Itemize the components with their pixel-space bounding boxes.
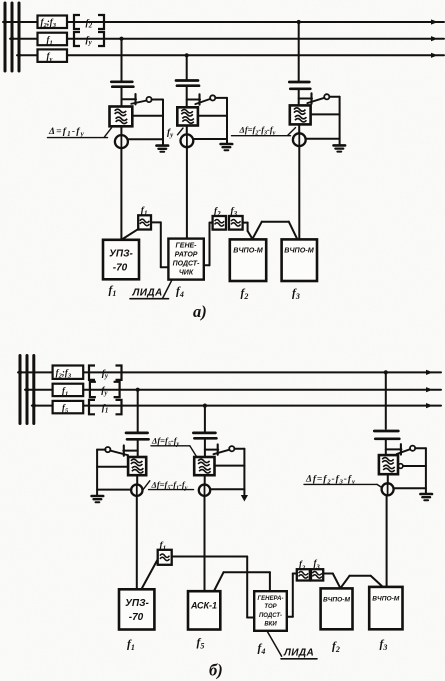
label f2 under VChPO-1 (b) [332,641,340,655]
bus bar phase B (diagram a) [11,3,14,71]
bus bar phase A (diagram a) [4,3,7,71]
block VChPO-M 2 (diagram a) [282,239,317,281]
filter box f2;f3 (diagram b line-1) [53,366,84,380]
wire to UPZ-70 channel-1a [120,148,122,240]
svg-text:ВКИ: ВКИ [264,621,277,627]
meter circle channel-1b [131,485,142,496]
block VChPO-M 1 (diagram b) [321,588,353,629]
junction bus C/line-3 [17,53,21,57]
block VChPO-M 2 (diagram b) [369,587,402,629]
trap filter [fy] (diagram b line-1) [89,366,122,381]
wire box to meter channel-3b [387,474,389,483]
filter box f5 (diagram b line-3) [53,401,84,415]
junction line-2 tap channel-1a [119,37,123,41]
label f2 above small converter (b) [299,559,306,572]
wire f1-conv to generator (b) [172,557,254,618]
label f1 above small converter (b) [160,541,167,553]
label f2 above small converter (a) [214,206,221,218]
bus bar phase A (diagram b) [19,356,22,424]
meter circle channel-1a [115,135,128,148]
wire meter output channel-3a [306,138,340,140]
wire box to meter channel-1a [120,126,122,135]
wire drop channel-2b [204,406,206,432]
ground channel-1a [157,146,169,152]
bus bar phase B (diagram b) [26,356,29,424]
svg-text:а): а) [193,302,207,321]
wire to VChPO-2 channel-3b [386,495,388,587]
wire generator to f2-conv (a) [204,223,213,266]
caption a) [193,302,207,321]
coupling capacitor channel-1a [111,82,133,87]
label f4 (diagram a) [176,286,184,300]
wire drop channel-2a [186,55,188,79]
junction line-1 tap channel-3a [297,20,301,24]
wire UPZ to f1-converter diag (a) [122,229,139,240]
coupling capacitor channel-2b [193,433,216,438]
wire f3-conv to VChPO-1 (b) [323,574,340,589]
filter box f1 (diagram b line-2) [53,384,84,398]
junction bus A/line-1 [3,20,7,24]
junction line-3 tap channel-2a [185,53,189,57]
small converter f3 (diagram b) [311,569,323,580]
label delta-f=f2-f3-fy (channel-3a) [232,125,296,137]
trap filter [fy] (diagram b line-2) [90,382,120,397]
wire box to meter channel-2b [204,475,206,485]
svg-text:ЛИДА: ЛИДА [132,288,163,299]
svg-text:АСК-1: АСК-1 [190,601,217,611]
wire rail channel-2b [243,449,245,495]
junction line-3 tap channel-2b [203,404,207,408]
wire meter output channel-1a [128,138,163,140]
wire box output channel-3a [311,113,340,115]
label f5 under ASK-1 (b) [197,637,205,651]
label f1 under UPZ-70 (b) [127,639,135,653]
wire line-2 f1 (diagram b) [25,387,441,392]
small converter f1 (diagram a) [138,215,151,229]
svg-text:ВЧПО-М: ВЧПО-М [372,595,399,602]
wire box to meter channel-1b [136,475,138,485]
filter box f1 (diagram a line-2) [38,33,68,47]
wire cap to box channel-2b [204,438,206,457]
wire f1-conv to generator (a) [151,222,168,267]
label f1 above small converter (a) [141,206,148,218]
wire cap to box channel-3b [385,439,387,455]
wire cap to box channel-1b [137,439,139,457]
filter box f2;f3 (diagram a line-1) [38,16,68,30]
disconnect switch channel-2a [187,94,227,104]
label delta-f=f5-fy (channel-2b) [151,436,196,457]
label f3 under VChPO-2 (a) [292,288,300,302]
frequency converter box channel-2a [177,107,198,125]
svg-text:ВЧПО-М: ВЧПО-М [233,245,263,254]
wire drop channel-3b [385,372,387,429]
frequency converter box channel-1a [110,107,133,127]
wire drop channel-1b [137,390,139,432]
wire meter output channel-3b [394,487,426,489]
coupling capacitor channel-3a [289,82,310,89]
wire cap to box channel-1a [121,87,123,107]
trap filter [f1] (diagram b line-3) [89,400,122,415]
svg-text:ВЧПО-М: ВЧПО-М [323,596,350,603]
wire bridge VChPO-1 to VChPO-2 (a) [253,222,297,239]
trap filter [f2] (diagram a line-1) [74,15,104,30]
svg-text:ГЕНЕ-: ГЕНЕ- [175,243,197,250]
wire drop channel-3a [298,22,300,81]
disconnect switch channel-1a [122,94,164,104]
wire meter output channel-1b [97,489,131,491]
wire cap to box channel-2a [186,86,188,108]
svg-text:-70: -70 [113,263,128,274]
ground channel-3b [420,494,432,500]
coupling capacitor channel-3b [374,431,399,439]
wire to VChPO-2 channel-3a [298,146,300,239]
label f2 under VChPO-1 (a) [241,288,249,302]
wire meter output channel-2a [193,138,227,140]
label f3 above small converter (a) [231,206,238,218]
wire rail channel-3a [339,97,341,145]
label f3 above small converter (b) [314,558,321,571]
ground channel-1b [92,496,104,502]
small converter f1 (diagram b) [158,550,172,565]
ground channel-2a [221,144,233,150]
wire UPZ to f1-converter diag (b) [142,560,158,590]
meter circle channel-3b [382,483,394,495]
frequency converter box channel-2b [194,457,214,475]
disconnect switch channel-3a [299,93,340,103]
frequency converter box channel-1b [128,457,146,475]
wire line-1 f2;f3 (diagram a) [3,19,444,24]
wire box output channel-1b [97,466,128,468]
wire ASK-1 to generator top (b) [214,572,270,591]
bus bar phase C (diagram a) [18,3,21,71]
trap filter [fy] (diagram a line-2) [74,32,104,47]
wire to generator channel-2a [186,147,188,239]
label f3 under VChPO-2 (b) [380,639,388,653]
label delta-f=f2-f3-fy (channel-3b) [304,475,382,488]
wire meter output channel-2b [210,488,244,490]
junction bus B/line-2 [10,37,14,41]
meter circle channel-2b [199,485,210,496]
svg-text:ВЧПО-М: ВЧПО-М [284,245,314,254]
wire to UPZ-70 channel-1b [136,496,138,589]
disconnect switch channel-2b [205,444,245,454]
wire box to meter channel-2a [186,126,188,135]
svg-text:-70: -70 [129,612,144,623]
wire line-3 fy (diagram a) [17,53,444,58]
label f1 under UPZ-70 (a) [109,285,117,299]
label f4 (diagram b) [258,643,266,657]
caption b) [209,661,223,680]
meter circle channel-2a [181,134,194,147]
svg-text:ТОР: ТОР [264,604,277,610]
wire line-3 f5 (diagram b) [32,403,441,408]
disconnect switch channel-3b [386,444,426,454]
wire box output channel-2a [198,115,227,117]
small converter f2 (diagram b) [297,569,310,580]
label LIDA (diagram a) [130,280,172,299]
block ASK-1 (diagram b) [188,591,220,629]
frequency converter box channel-3b [379,455,398,474]
svg-text:УПЗ-: УПЗ- [109,249,133,260]
wire box output channel-3b [403,465,426,467]
frequency converter box channel-3a [290,105,311,124]
junction bus C/line-3 (b) [32,404,36,408]
svg-text:ГЕНЕРА-: ГЕНЕРА- [258,596,284,602]
block generator podstavki (diagram a) [168,239,203,280]
label LIDA (diagram b) [281,648,317,659]
wire leader generator to LIDA (b) [267,632,281,657]
ground channel-3a [334,145,346,151]
junction line-1 tap channel-3b [384,370,388,374]
wire box output channel-2b [215,465,245,467]
junction bus B/line-2 (b) [25,388,29,392]
wire box to meter channel-3a [298,124,300,133]
svg-text:ПОДСТ-: ПОДСТ- [173,261,201,268]
svg-text:б): б) [209,661,223,680]
label fy (channel-2a) [167,128,183,139]
ground arrow channel-2b [241,495,248,502]
wire generator to f2-conv (b) [287,574,297,617]
wire to ASK-1 channel-2b [204,496,206,591]
block UPZ-70 (diagram b) [119,589,154,629]
svg-text:ПОДСТ-: ПОДСТ- [259,613,282,619]
junction bus A/line-1 (b) [18,370,22,374]
svg-text:РАТОР: РАТОР [175,252,198,259]
bus bar phase C (diagram b) [32,356,35,424]
disconnect switch channel-1b [97,445,138,455]
svg-text:Δ=f1-fу: Δ=f1-fу [48,127,85,138]
junction line-2 tap channel-1b [136,388,140,392]
wire rail channel-1a [162,100,164,146]
coupling capacitor channel-1b [126,433,149,439]
filter box fy (diagram a line-3) [38,49,68,63]
wire rail channel-1b [96,450,98,496]
wire line-2 f1 (diagram a) [10,36,444,41]
terminal circle box output channel-3b [398,464,403,469]
wire rail channel-2a [226,98,228,144]
wire drop channel-1a [121,39,123,81]
wire cap to box channel-3a [298,89,300,106]
label delta-f=f5-f1-fy (channel-1b) [143,479,193,491]
wire bridge VChPO-1 to VChPO-2 (b) [340,576,384,588]
small converter f2 (diagram a) [213,216,226,230]
label delta=f1-fy (channel-1a) [48,127,112,138]
svg-text:УПЗ-: УПЗ- [125,598,149,609]
block UPZ-70 (diagram a) [103,240,139,279]
coupling capacitor channel-2a [176,81,199,86]
wire f3-conv to VChPO-1 (a) [243,223,253,240]
svg-text:ЧИК: ЧИК [179,270,194,277]
wire box output channel-1a [132,115,163,117]
block generator podstavki (diagram b) [254,591,287,631]
wire rail channel-3b [425,448,427,493]
wire line-1 f2;f3 (diagram b) [18,370,441,375]
block VChPO-M 1 (diagram a) [230,239,266,281]
meter circle channel-3a [293,133,306,146]
svg-text:ЛИДА: ЛИДА [283,648,314,659]
small converter f3 (diagram a) [229,216,243,230]
